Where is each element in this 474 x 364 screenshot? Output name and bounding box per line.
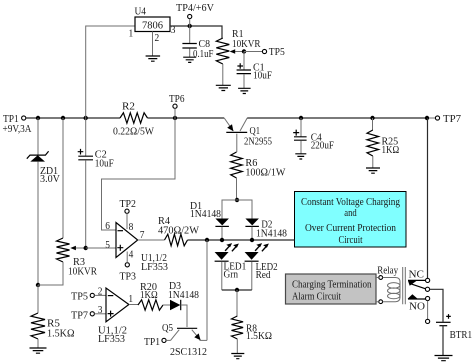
test point NO stub [426,319,430,323]
svg-text:1KΩ: 1KΩ [140,289,158,301]
wire down to Q5 [206,240,208,340]
relay contact NC [408,269,430,286]
resistor R8 [232,290,273,354]
svg-text:TP6: TP6 [169,93,185,105]
node R8 top [235,288,239,292]
svg-text:7: 7 [140,229,145,241]
svg-text:3: 3 [98,304,103,316]
svg-text:Circuit: Circuit [339,234,363,246]
wire feedback from rail to pin6 [102,118,176,230]
svg-text:1.5KΩ: 1.5KΩ [47,327,75,339]
svg-text:6: 6 [105,220,110,232]
ground C8 [183,57,196,62]
resistor R6 [231,152,286,178]
svg-text:10uF: 10uF [95,157,114,169]
svg-text:220uF: 220uF [311,140,334,152]
resistor R20 [138,281,163,310]
resistor R5 [31,285,75,348]
wire LED bottoms [222,289,252,291]
svg-text:and: and [344,207,357,219]
LED2 Red [245,243,278,290]
node TP4 junction [188,24,192,28]
annotation box: charging termination alarm [286,274,377,304]
wire pin3 [94,313,106,315]
diode D3 1N4148 [168,280,199,310]
resistor R25 [367,118,399,168]
resistor R4 [158,215,200,246]
wire TP4 stem [189,19,191,26]
annotation box: constant voltage charging [295,192,407,248]
test point TP5 [262,46,285,58]
svg-text:10KVR: 10KVR [68,266,98,278]
node Q5 collector line [205,238,209,242]
svg-text:8: 8 [129,221,134,233]
regulator U4 7806 [129,6,176,45]
svg-text:5: 5 [105,239,110,251]
svg-text:LF353: LF353 [141,261,168,273]
svg-text:R2: R2 [122,101,135,113]
wire op-amp output [138,239,165,241]
svg-text:Relay: Relay [377,264,398,276]
svg-text:10uF: 10uF [253,70,272,82]
node R25 top [370,116,374,120]
test point TP1 (comparator) [144,336,166,348]
svg-text:U4: U4 [135,6,147,18]
op-amp U1 first half [105,220,168,273]
svg-text:1.5KΩ: 1.5KΩ [246,330,272,342]
svg-text:0.1uF: 0.1uF [193,48,214,60]
wire output down to relay NC [427,118,429,278]
ground R8 [231,354,244,359]
svg-text:NC: NC [409,269,425,281]
wire diode branch tops [222,200,252,219]
node TP7 [425,116,429,120]
capacitor C4 [293,118,334,154]
svg-text:TP1: TP1 [144,336,160,348]
svg-text:TP7: TP7 [71,309,88,321]
LED1 Grn [215,243,247,290]
svg-text:1: 1 [129,27,134,39]
wire D3 to Q5 base [181,305,187,327]
wire R6 to diode junction [236,178,238,200]
ground R5 [30,348,47,353]
wire main rail right [247,117,427,119]
relay core [403,267,406,304]
wire pin8 stem [126,213,128,229]
svg-text:Alarm Circuit: Alarm Circuit [292,291,341,303]
svg-text:7806: 7806 [142,20,163,32]
svg-text:4: 4 [129,248,134,260]
svg-text:+9V,3A: +9V,3A [3,123,32,135]
svg-text:TP7: TP7 [443,113,461,125]
diode D1 1N4148 [190,200,229,240]
test point TP5 (comparator) [71,291,94,303]
R3 wiper arrow [75,247,86,249]
svg-text:Over Current Protection: Over Current Protection [305,222,396,234]
svg-text:TP3: TP3 [120,270,137,282]
wire R4 to cyan box [188,239,295,241]
diode D2 1N4148 [245,218,287,240]
resistor R1 (10K variable) [216,28,261,85]
svg-text:NO: NO [409,300,425,312]
wire common to battery [430,289,443,322]
wire rail to Q1 [148,117,225,119]
op-amp U1 second half [98,286,133,346]
node wiper/C2/pin5 junction [84,246,88,250]
ground C4 [295,154,306,159]
svg-text:0.22Ω/5W: 0.22Ω/5W [113,126,155,138]
wire U4 pin2 stem [152,32,154,57]
test point TP6 [169,93,185,108]
svg-text:470Ω/2W: 470Ω/2W [158,224,200,236]
svg-text:1N4148: 1N4148 [190,208,221,220]
wire TP1 to Q5 [166,339,170,341]
node C4 top [299,116,303,120]
svg-text:2: 2 [155,32,160,44]
wire comparator output [129,304,138,306]
svg-text:2: 2 [98,286,103,298]
node TP6 junction [173,116,177,120]
transistor Q5 [162,322,207,358]
svg-text:TP5: TP5 [71,291,88,303]
wire pin4 stem [126,252,128,263]
relay lever [409,283,425,289]
ground battery [435,356,453,361]
capacitor C2 [78,118,114,248]
test point TP4/+6V [176,2,214,19]
svg-text:1N4148: 1N4148 [256,227,287,239]
svg-text:Grn: Grn [224,268,239,280]
svg-text:TP4/+6V: TP4/+6V [176,2,214,14]
ground R25 [366,168,380,173]
node ZD1 top [36,116,40,120]
wire NO stub [427,301,429,320]
svg-text:LF353: LF353 [98,333,125,345]
wire U4 pin3 to R1 [170,26,222,38]
ground U4 [146,56,161,61]
wire main rail left [26,117,120,119]
capacitor C8 [182,26,213,60]
svg-text:2SC1312: 2SC1312 [170,346,207,358]
svg-text:1: 1 [128,293,133,305]
test point TP3 [120,263,137,283]
transistor Q1 [224,118,272,148]
node C2 / U4 pin1 [84,116,88,120]
svg-text:TP2: TP2 [120,198,137,210]
wire pin2 [94,294,106,296]
relay coil [376,264,405,304]
relay contact NO [408,294,430,312]
zener ZD1 [27,118,60,285]
svg-text:10KVR: 10KVR [232,38,261,50]
node diode splitter [235,198,239,202]
wire Q1 base stem [236,134,238,152]
test point TP1 [3,113,32,135]
svg-text:2N2955: 2N2955 [244,136,272,148]
ground C1 [238,88,251,93]
wire TP6 stem [174,108,176,118]
svg-text:1N4148: 1N4148 [168,289,199,301]
battery BTR1 [436,314,472,355]
resistor R3 (10K variable) [38,118,98,285]
svg-text:Constant Voltage Charging: Constant Voltage Charging [301,196,400,208]
R1 wiper arrow [234,51,244,53]
svg-text:Red: Red [256,269,271,281]
svg-text:Charging Termination: Charging Termination [292,279,372,291]
test point TP7 (comparator) [71,309,94,321]
test point TP7 [429,113,461,125]
wire R20 to D3 [163,304,170,306]
resistor R2 [113,101,155,138]
svg-text:BTR1: BTR1 [450,329,473,341]
relay common [425,287,429,291]
svg-text:3.0V: 3.0V [40,173,60,185]
svg-text:TP5: TP5 [269,46,285,58]
wire wiper to TP5 [244,51,262,53]
node R3 top [61,116,65,120]
wire U4 pin1 to rail [86,26,135,118]
test point TP2 [120,198,137,213]
ground R1 [216,85,231,90]
svg-text:Q5: Q5 [162,322,173,334]
svg-text:1KΩ: 1KΩ [382,144,400,156]
wire pin5 [86,247,116,249]
capacitor C1 [237,52,272,89]
node D1/LED1 [220,238,224,242]
svg-text:100Ω/1W: 100Ω/1W [245,166,286,178]
node D2/LED2 [250,238,254,242]
node ZD1/R5 junction [36,283,40,287]
node C1 top [242,49,246,53]
